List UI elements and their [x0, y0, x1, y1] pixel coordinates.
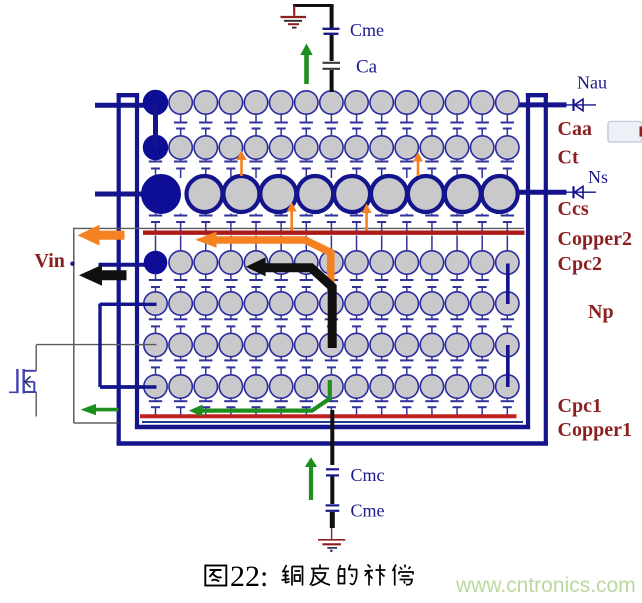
- svg-text:Copper2: Copper2: [558, 228, 632, 250]
- winding primary Np turns (row 4): [144, 251, 519, 274]
- interlayer capacitance row4-row5: [149, 274, 489, 293]
- svg-text:Np: Np: [588, 301, 614, 323]
- caption: figure 22 copper shield compensation: [205, 560, 413, 593]
- svg-text:Cme: Cme: [350, 20, 384, 40]
- arrow: green shield return path (inside): [189, 380, 330, 417]
- svg-text:Cme: Cme: [351, 501, 385, 521]
- wire: row1-row2 series link (left): [153, 103, 158, 147]
- wire: U-link stub overlay row7: [100, 385, 157, 388]
- diode D-Ns: [574, 186, 584, 198]
- arrow: small orange displacement current 3: [287, 202, 297, 231]
- ground (mains earth, top): [281, 6, 307, 28]
- svg-text:Copper1: Copper1: [558, 419, 632, 441]
- arrow: black current exiting left (Vin): [79, 265, 127, 286]
- svg-text:Nau: Nau: [577, 73, 607, 93]
- wire: bottom vertical from shield: [330, 410, 334, 465]
- winding primary Np turns (row 7): [144, 375, 519, 398]
- capacitor Ca: [323, 63, 341, 69]
- capacitor Cme (top): [323, 29, 340, 34]
- distributed capacitance Ccs (row3 to Copper2): [149, 214, 514, 231]
- distributed capacitance Cpc2 stems (Copper2 to row4): [156, 236, 508, 253]
- svg-text:22:: 22:: [230, 560, 268, 593]
- svg-text:Caa: Caa: [558, 118, 592, 140]
- wire: Cme to Ca stem: [330, 35, 334, 61]
- wire: inner box left vertical: [135, 93, 139, 429]
- arrow: small orange displacement current 4: [362, 204, 372, 231]
- svg-text:Ccs: Ccs: [558, 198, 589, 220]
- diode D-Nau: [574, 99, 584, 111]
- interlayer capacitance row5-row6: [149, 315, 514, 334]
- wire: MOSFET drain to primary (row 6) horizontal: [36, 344, 156, 346]
- wire: outer box left vertical: [117, 93, 121, 446]
- wire: right link overlay row6-row7: [506, 345, 510, 387]
- svg-text:Ca: Ca: [356, 57, 378, 78]
- arrow: orange shield current path (inside): [195, 232, 331, 293]
- svg-text:Ct: Ct: [558, 147, 579, 169]
- wire: inner box right vertical: [526, 93, 530, 429]
- copper shield Copper1 (red): [140, 414, 517, 418]
- wire: Ns diode wire: [566, 191, 596, 193]
- wire: U-link stub overlay row5: [100, 303, 157, 306]
- svg-text:Ns: Ns: [588, 167, 608, 187]
- winding primary Np turns (row 6): [144, 333, 519, 356]
- wire: left verticals top cap: [117, 93, 140, 97]
- arrow: small orange displacement current 1: [237, 151, 247, 177]
- wire: right link row4-row5: [506, 264, 510, 304]
- wire: Nau winding left lead: [95, 103, 156, 108]
- winding Ns secondary turns (row 3, large): [142, 175, 518, 214]
- winding auxiliary turns (row 2): [143, 135, 519, 159]
- distributed capacitance Ct (row2-row3 gap): [149, 159, 514, 178]
- wire: thin liner line above Copper2: [74, 227, 524, 229]
- wire: U-link row5-row7 left vertical: [98, 304, 101, 388]
- wire: primary row-4 left lead (Vin side): [99, 263, 158, 267]
- wire: outer box bottom: [117, 441, 548, 446]
- wire: right link overlay row4-row5: [506, 264, 510, 305]
- svg-text:Cmc: Cmc: [351, 465, 385, 485]
- svg-text:Vin: Vin: [35, 250, 65, 272]
- wire: Cme to ground stem (bottom): [330, 512, 335, 528]
- transistor Q1 (MOSFET): [9, 345, 36, 394]
- wire: top ground horizontal: [293, 4, 334, 7]
- wire: Ns winding left lead (row 3): [95, 192, 162, 197]
- wire: Nau diode wire: [566, 104, 596, 106]
- interlayer capacitance row6-row7: [149, 357, 489, 376]
- node Vin junction dot: [70, 262, 74, 266]
- wire: right link row6-row7: [506, 346, 510, 388]
- wire: drain line overlay into row6: [140, 344, 157, 346]
- wire: outer box right vertical: [544, 93, 548, 446]
- arrow: common-mode current up (top, green): [300, 44, 312, 85]
- wire: thin liner line above Copper1: [142, 421, 523, 423]
- wire: U-link upper stub into row 5: [100, 303, 157, 306]
- capacitor Cmc: [326, 469, 339, 475]
- wire: Ca down to winding row1: [330, 70, 334, 92]
- arrow: orange current exiting left (Vin): [78, 225, 125, 246]
- arrow: small orange displacement current 2: [413, 152, 423, 176]
- wire: Vin loop vertical: [73, 228, 75, 423]
- wire: top vertical to Cme: [330, 6, 334, 29]
- winding Nau turns (row 1): [143, 90, 519, 114]
- wire: inner box bottom: [135, 425, 530, 429]
- svg-text:www.cntronics.com: www.cntronics.com: [455, 574, 636, 597]
- arrow: green return exiting left: [81, 404, 119, 415]
- ground (mains earth, bottom): [318, 540, 345, 552]
- svg-text:Cpc1: Cpc1: [558, 395, 602, 417]
- wire: Vin loop bottom horizontal: [74, 422, 119, 424]
- wire: MOSFET source lead down: [35, 392, 37, 417]
- partial tooltip box (right edge): [608, 122, 642, 143]
- wire: Nau right lead: [507, 102, 567, 107]
- capacitor Cme (bottom): [326, 505, 340, 510]
- distributed capacitance Caa (row1-row2 gap): [174, 114, 514, 137]
- wire: U-link lower stub into row 7: [100, 385, 157, 388]
- winding primary Np turns (row 5): [144, 292, 519, 315]
- arrow: common-mode current up (bottom, green): [305, 457, 317, 500]
- wire: right verticals top cap: [526, 93, 548, 97]
- arrow: black primary current path (inside): [246, 257, 332, 348]
- wire: thin stem to bottom ground: [331, 528, 333, 540]
- svg-text:Cpc2: Cpc2: [558, 253, 602, 275]
- distributed capacitance Cpc1 (row7 to Copper1): [149, 398, 514, 414]
- copper shield Copper2 (red): [143, 230, 525, 234]
- wire: Cmc to Cme stem: [330, 477, 334, 505]
- wire: Ns right lead: [500, 190, 567, 195]
